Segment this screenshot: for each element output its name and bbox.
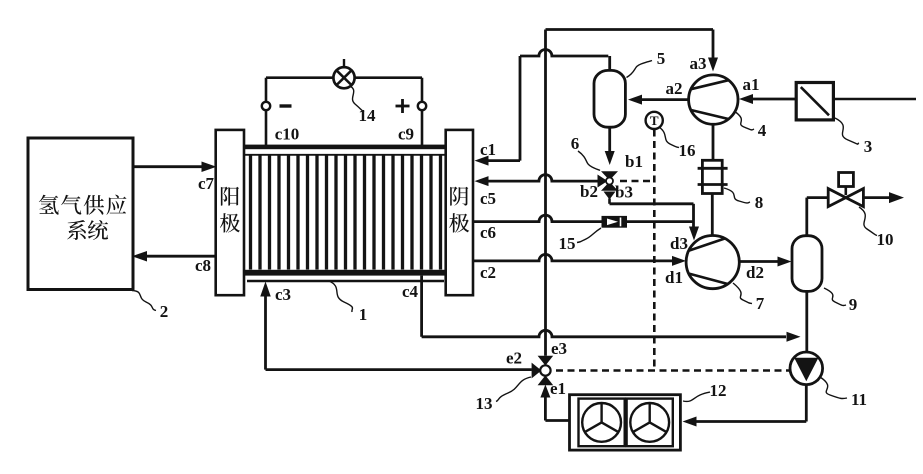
svg-text:c8: c8 — [195, 256, 211, 275]
svg-text:c10: c10 — [275, 125, 300, 144]
svg-text:d1: d1 — [665, 268, 683, 287]
svg-text:12: 12 — [710, 381, 727, 400]
svg-text:c1: c1 — [480, 140, 496, 159]
svg-text:d3: d3 — [670, 234, 688, 253]
svg-text:c9: c9 — [398, 125, 414, 144]
svg-text:7: 7 — [756, 294, 765, 313]
svg-text:c7: c7 — [198, 174, 215, 193]
svg-text:5: 5 — [657, 49, 666, 68]
svg-text:3: 3 — [864, 137, 873, 156]
svg-text:1: 1 — [359, 305, 368, 324]
svg-text:b2: b2 — [580, 182, 598, 201]
svg-text:T: T — [650, 113, 659, 128]
svg-text:e1: e1 — [550, 379, 566, 398]
svg-text:d2: d2 — [746, 263, 764, 282]
svg-text:14: 14 — [359, 106, 377, 125]
svg-text:6: 6 — [571, 134, 580, 153]
svg-text:c3: c3 — [275, 285, 291, 304]
svg-text:11: 11 — [851, 390, 867, 409]
svg-text:b3: b3 — [615, 183, 633, 202]
svg-text:2: 2 — [160, 302, 169, 321]
svg-text:4: 4 — [758, 121, 767, 140]
svg-text:c5: c5 — [480, 189, 496, 208]
svg-text:c4: c4 — [402, 282, 419, 301]
svg-text:a3: a3 — [690, 54, 707, 73]
svg-text:e3: e3 — [551, 339, 567, 358]
svg-text:8: 8 — [755, 193, 764, 212]
svg-text:c6: c6 — [480, 223, 496, 242]
svg-text:c2: c2 — [480, 263, 496, 282]
svg-text:10: 10 — [877, 230, 894, 249]
svg-text:13: 13 — [476, 394, 493, 413]
svg-text:a2: a2 — [666, 79, 683, 98]
svg-text:16: 16 — [679, 141, 696, 160]
svg-text:b1: b1 — [625, 152, 643, 171]
svg-text:e2: e2 — [506, 349, 522, 368]
svg-text:9: 9 — [849, 295, 858, 314]
svg-text:15: 15 — [559, 234, 576, 253]
svg-text:a1: a1 — [743, 75, 760, 94]
